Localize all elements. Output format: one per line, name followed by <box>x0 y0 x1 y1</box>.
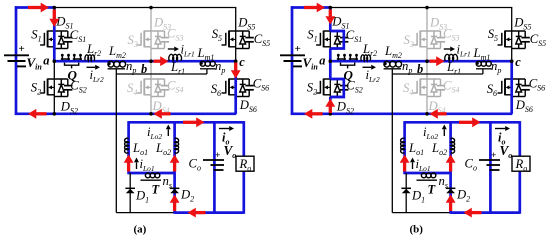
wire Co branch (a) <box>213 122 216 212</box>
transistor S3 gray (b) <box>420 30 440 32</box>
red arrow secondary top rail right (a) <box>183 121 196 124</box>
red arrow bottom rail into S2 up <box>329 107 332 113</box>
winding np1 core bar (b) <box>476 68 492 70</box>
svg-text:+: + <box>295 43 301 55</box>
junction bottom leg1 (a) <box>53 112 57 116</box>
wire np2 return drop (b) <box>391 69 393 74</box>
current label iLo1 (b) <box>412 162 414 169</box>
node b (b) <box>425 59 429 63</box>
wire leg2 gray vertical (b) <box>426 8 428 114</box>
winding Lm1/np1 (a) <box>200 61 205 66</box>
winding ns core bar (a) <box>141 179 162 181</box>
transistor S6 with DS6 CS6 (a) <box>229 78 249 80</box>
wire primary midline a-b-c blue (b) <box>330 60 511 63</box>
wire through S6 channel blue (a) <box>234 78 237 98</box>
current label iLr1 (a) <box>168 48 174 50</box>
red arrow Lo2 up (a) <box>173 163 176 172</box>
wire S6 to bottom rail blue (b) <box>510 97 513 114</box>
red arrow node c down into S6 <box>234 63 237 71</box>
wire leg2 gray vertical (a) <box>150 8 152 114</box>
wire S6 to bottom rail blue (a) <box>234 97 237 114</box>
wire return horizontal (a) <box>116 73 207 75</box>
wire through S1 channel blue <box>53 30 56 50</box>
wire leg3 top to S5 black (a) <box>235 8 237 32</box>
battery Vin mid plate (b) <box>284 60 302 62</box>
junction top leg2 (b) <box>425 6 429 10</box>
winding ns (a) <box>145 173 150 178</box>
node c (a) <box>234 59 238 63</box>
wire S1 source to node a blue <box>53 49 56 62</box>
red arrow top rail right (b) <box>304 6 317 9</box>
wire load branch right edge (a) <box>242 121 245 214</box>
wire S5 source to node c black (a) <box>235 49 237 62</box>
current label iLr2 (a) <box>87 66 96 68</box>
red arrow below D2 up (b) <box>449 203 452 211</box>
wire S5 channel black (b) <box>511 31 513 49</box>
wire ns line (b) <box>405 172 451 175</box>
wire leg1 drain S1 blue <box>53 8 56 32</box>
wire D1 branch (a) <box>129 173 131 213</box>
capacitor Co mid plate (a) <box>211 164 225 166</box>
wire Lo1 branch (a) <box>127 121 130 174</box>
winding np2 core bar (a) <box>108 68 125 70</box>
wire secondary bottom black segment (a) <box>116 212 174 214</box>
diode D2 (a) <box>170 187 180 189</box>
wire top rail blue segment (b) <box>291 6 331 9</box>
winding np2 core bar (b) <box>384 68 401 70</box>
inductor Lo2 (a) <box>175 138 179 153</box>
transistor S5 with DS5 CS5 (a) <box>229 30 249 32</box>
winding np1 core bar (a) <box>200 68 216 70</box>
svg-text:Q: Q <box>344 68 354 83</box>
red arrow Lo1 up (a) <box>127 163 130 172</box>
inductor Lo1 (b) <box>401 138 405 153</box>
red arrow after node b right (b) <box>430 60 437 63</box>
diode D2 (b) <box>446 187 456 189</box>
red arrow bottom rail left outer (b) <box>312 112 322 115</box>
capacitor Co mid plate (b) <box>487 164 501 166</box>
wire top rail black segment (b) <box>330 7 512 9</box>
battery Vin short plate (b) <box>293 65 302 67</box>
red arrow into S1 down (a) <box>53 10 56 19</box>
svg-text:+: + <box>19 43 25 55</box>
red arrow after node b right (a) <box>154 60 161 63</box>
wire S2 black channel <box>329 79 331 97</box>
wire S1 black channel <box>329 31 331 49</box>
svg-text:+: + <box>491 151 496 161</box>
wire secondary top rail (b) <box>405 121 520 124</box>
wire Lo2/D2 branch upper (a) <box>173 121 176 173</box>
wire node c to S6 blue (b) <box>510 61 513 79</box>
wire np1 return drop (a) <box>206 69 208 74</box>
wire secondary top rail (a) <box>129 121 244 124</box>
svg-text:a: a <box>319 54 325 68</box>
wire D1 branch (b) <box>405 173 407 213</box>
node a (a) <box>53 59 57 63</box>
wire secondary bottom rail blue (a) <box>175 211 244 214</box>
current label io (a) <box>219 128 229 130</box>
wire left rail with Vin (a) <box>15 6 18 115</box>
wire Co branch (b) <box>489 122 492 212</box>
transistor S1 with DS1 CS1 (b) <box>324 30 344 32</box>
wire S2 box bottom to bottom rail blue <box>329 97 332 114</box>
wire leg1 drain S1 blue <box>329 8 332 32</box>
wire left rail with Vin (b) <box>291 6 294 115</box>
wire D2 branch lower (b) <box>449 173 452 214</box>
wire through S6 channel blue (b) <box>510 78 513 98</box>
svg-text:a: a <box>43 54 49 68</box>
winding Lm2/np2 (b) <box>384 61 390 67</box>
current label iLo1 (a) <box>136 162 138 169</box>
wire secondary bottom rail blue (b) <box>451 211 520 214</box>
winding ns (b) <box>421 173 426 178</box>
winding Lm1/np1 (b) <box>476 61 481 66</box>
switch Q bidirectional (a) <box>61 56 63 60</box>
battery Vin mid plate (a) <box>8 60 26 62</box>
wire S1 box bottom to node a blue <box>329 49 332 62</box>
wire top rail blue segment (a) <box>15 6 55 9</box>
wire return horizontal (b) <box>392 73 483 75</box>
red arrow bottom rail left after leg2 (b) <box>438 112 447 115</box>
diode D1 (a) <box>125 187 135 189</box>
red arrow secondary bottom left (b) <box>472 211 482 214</box>
wire core vertical to secondary (b) <box>391 74 393 213</box>
junction top leg1 (b) <box>329 6 333 10</box>
red arrow into S1 down (b) <box>329 10 332 17</box>
junction bottom leg2 (a) <box>149 112 153 116</box>
wire core vertical to secondary (a) <box>115 74 117 213</box>
wire bottom rail blue (a) <box>15 112 237 115</box>
svg-text:(b): (b) <box>410 224 424 236</box>
red arrow bottom rail left after leg2 (a) <box>162 112 171 115</box>
wire blue detour through capacitor CS1 <box>330 31 344 49</box>
transistor S4 gray (b) <box>420 78 440 80</box>
capacitor Co long plate (a) <box>203 159 224 161</box>
inductor Lr1 (b) <box>445 54 458 60</box>
wire np1 return drop (b) <box>482 69 484 74</box>
node a (b) <box>329 59 333 63</box>
svg-text:+: + <box>215 151 220 161</box>
node b (a) <box>149 59 153 63</box>
current label io (b) <box>495 128 505 130</box>
wire ns line (a) <box>129 172 175 175</box>
wire Lo2/D2 branch upper (b) <box>449 121 452 173</box>
switch Q bidirectional (b) <box>337 56 339 60</box>
junction top leg1 (a) <box>53 6 57 10</box>
transistor S6 with DS6 CS6 (b) <box>505 78 525 80</box>
transistor S2 with DS2 CS2 (a) <box>48 78 68 80</box>
red arrow top rail right (a) <box>28 6 41 9</box>
wire node c to S6 blue (a) <box>234 61 237 79</box>
junction bottom leg1 (b) <box>329 112 333 116</box>
red arrow secondary top rail right (b) <box>459 121 472 124</box>
svg-text:Q: Q <box>68 68 78 83</box>
current label iLr1 (b) <box>444 48 450 50</box>
wire S2 channel black <box>53 79 55 97</box>
wire Lo1 branch (b) <box>403 121 406 174</box>
wire top rail black segment (a) <box>54 7 236 9</box>
diode D1 (b) <box>401 187 411 189</box>
wire np2 return drop (a) <box>115 69 117 74</box>
capacitor Co short plate (a) <box>214 169 224 171</box>
red arrow bottom rail left outer (a) <box>36 112 46 115</box>
current label iLr2 (b) <box>363 66 372 68</box>
inductor Lr2 (a) <box>85 55 94 61</box>
transistor S5 with DS5 CS5 (b) <box>505 30 525 32</box>
inductor Lr2 (b) <box>361 55 370 61</box>
svg-text:c: c <box>515 55 521 69</box>
wire node a to S2 drain black <box>53 61 55 79</box>
wire node a to S2 drain blue <box>329 61 332 79</box>
red arrow Lo1 up (b) <box>403 163 406 172</box>
wire secondary bottom black segment (b) <box>392 212 450 214</box>
resistor Ro box (b) <box>512 156 530 171</box>
wire primary midline a-b-c blue (a) <box>54 60 235 63</box>
svg-text:(a): (a) <box>134 224 147 236</box>
winding Lm2/np2 (a) <box>108 61 114 67</box>
wire blue detour through capacitor CS2 <box>330 79 344 97</box>
transistor S4 gray (a) <box>144 78 164 80</box>
transistor S3 gray (a) <box>144 30 164 32</box>
transistor S2 with DS2 CS2 (b) <box>324 78 344 80</box>
junction bottom leg2 (b) <box>425 112 429 116</box>
wire bottom rail blue (b) <box>291 112 513 115</box>
inductor Lo2 (b) <box>451 138 455 153</box>
junction top leg2 (a) <box>149 6 153 10</box>
resistor Ro box (a) <box>236 156 254 171</box>
wire D2 branch lower (a) <box>173 173 176 214</box>
red arrow secondary bottom left (a) <box>196 211 206 214</box>
wire leg3 top to S5 black (b) <box>511 8 513 32</box>
wire S2 source to bottom rail black <box>53 97 55 114</box>
red arrow Lo2 up (b) <box>449 163 452 172</box>
red arrow below D2 up (a) <box>173 203 176 211</box>
capacitor Co long plate (b) <box>479 159 500 161</box>
wire S5 source to node c black (b) <box>511 49 513 62</box>
capacitor Co short plate (b) <box>490 169 500 171</box>
svg-text:c: c <box>239 55 245 69</box>
battery Vin long plate (b) <box>280 54 305 56</box>
battery Vin long plate (a) <box>4 54 29 56</box>
winding ns core bar (b) <box>417 179 438 181</box>
wire S5 channel black (a) <box>235 31 237 49</box>
battery Vin short plate (a) <box>17 65 26 67</box>
transistor S1 with DS1 CS1 (a) <box>48 30 68 32</box>
inductor Lo1 (a) <box>125 138 129 153</box>
node c (b) <box>510 59 514 63</box>
inductor Lr1 (a) <box>169 54 182 60</box>
wire load branch right edge (b) <box>518 121 521 214</box>
